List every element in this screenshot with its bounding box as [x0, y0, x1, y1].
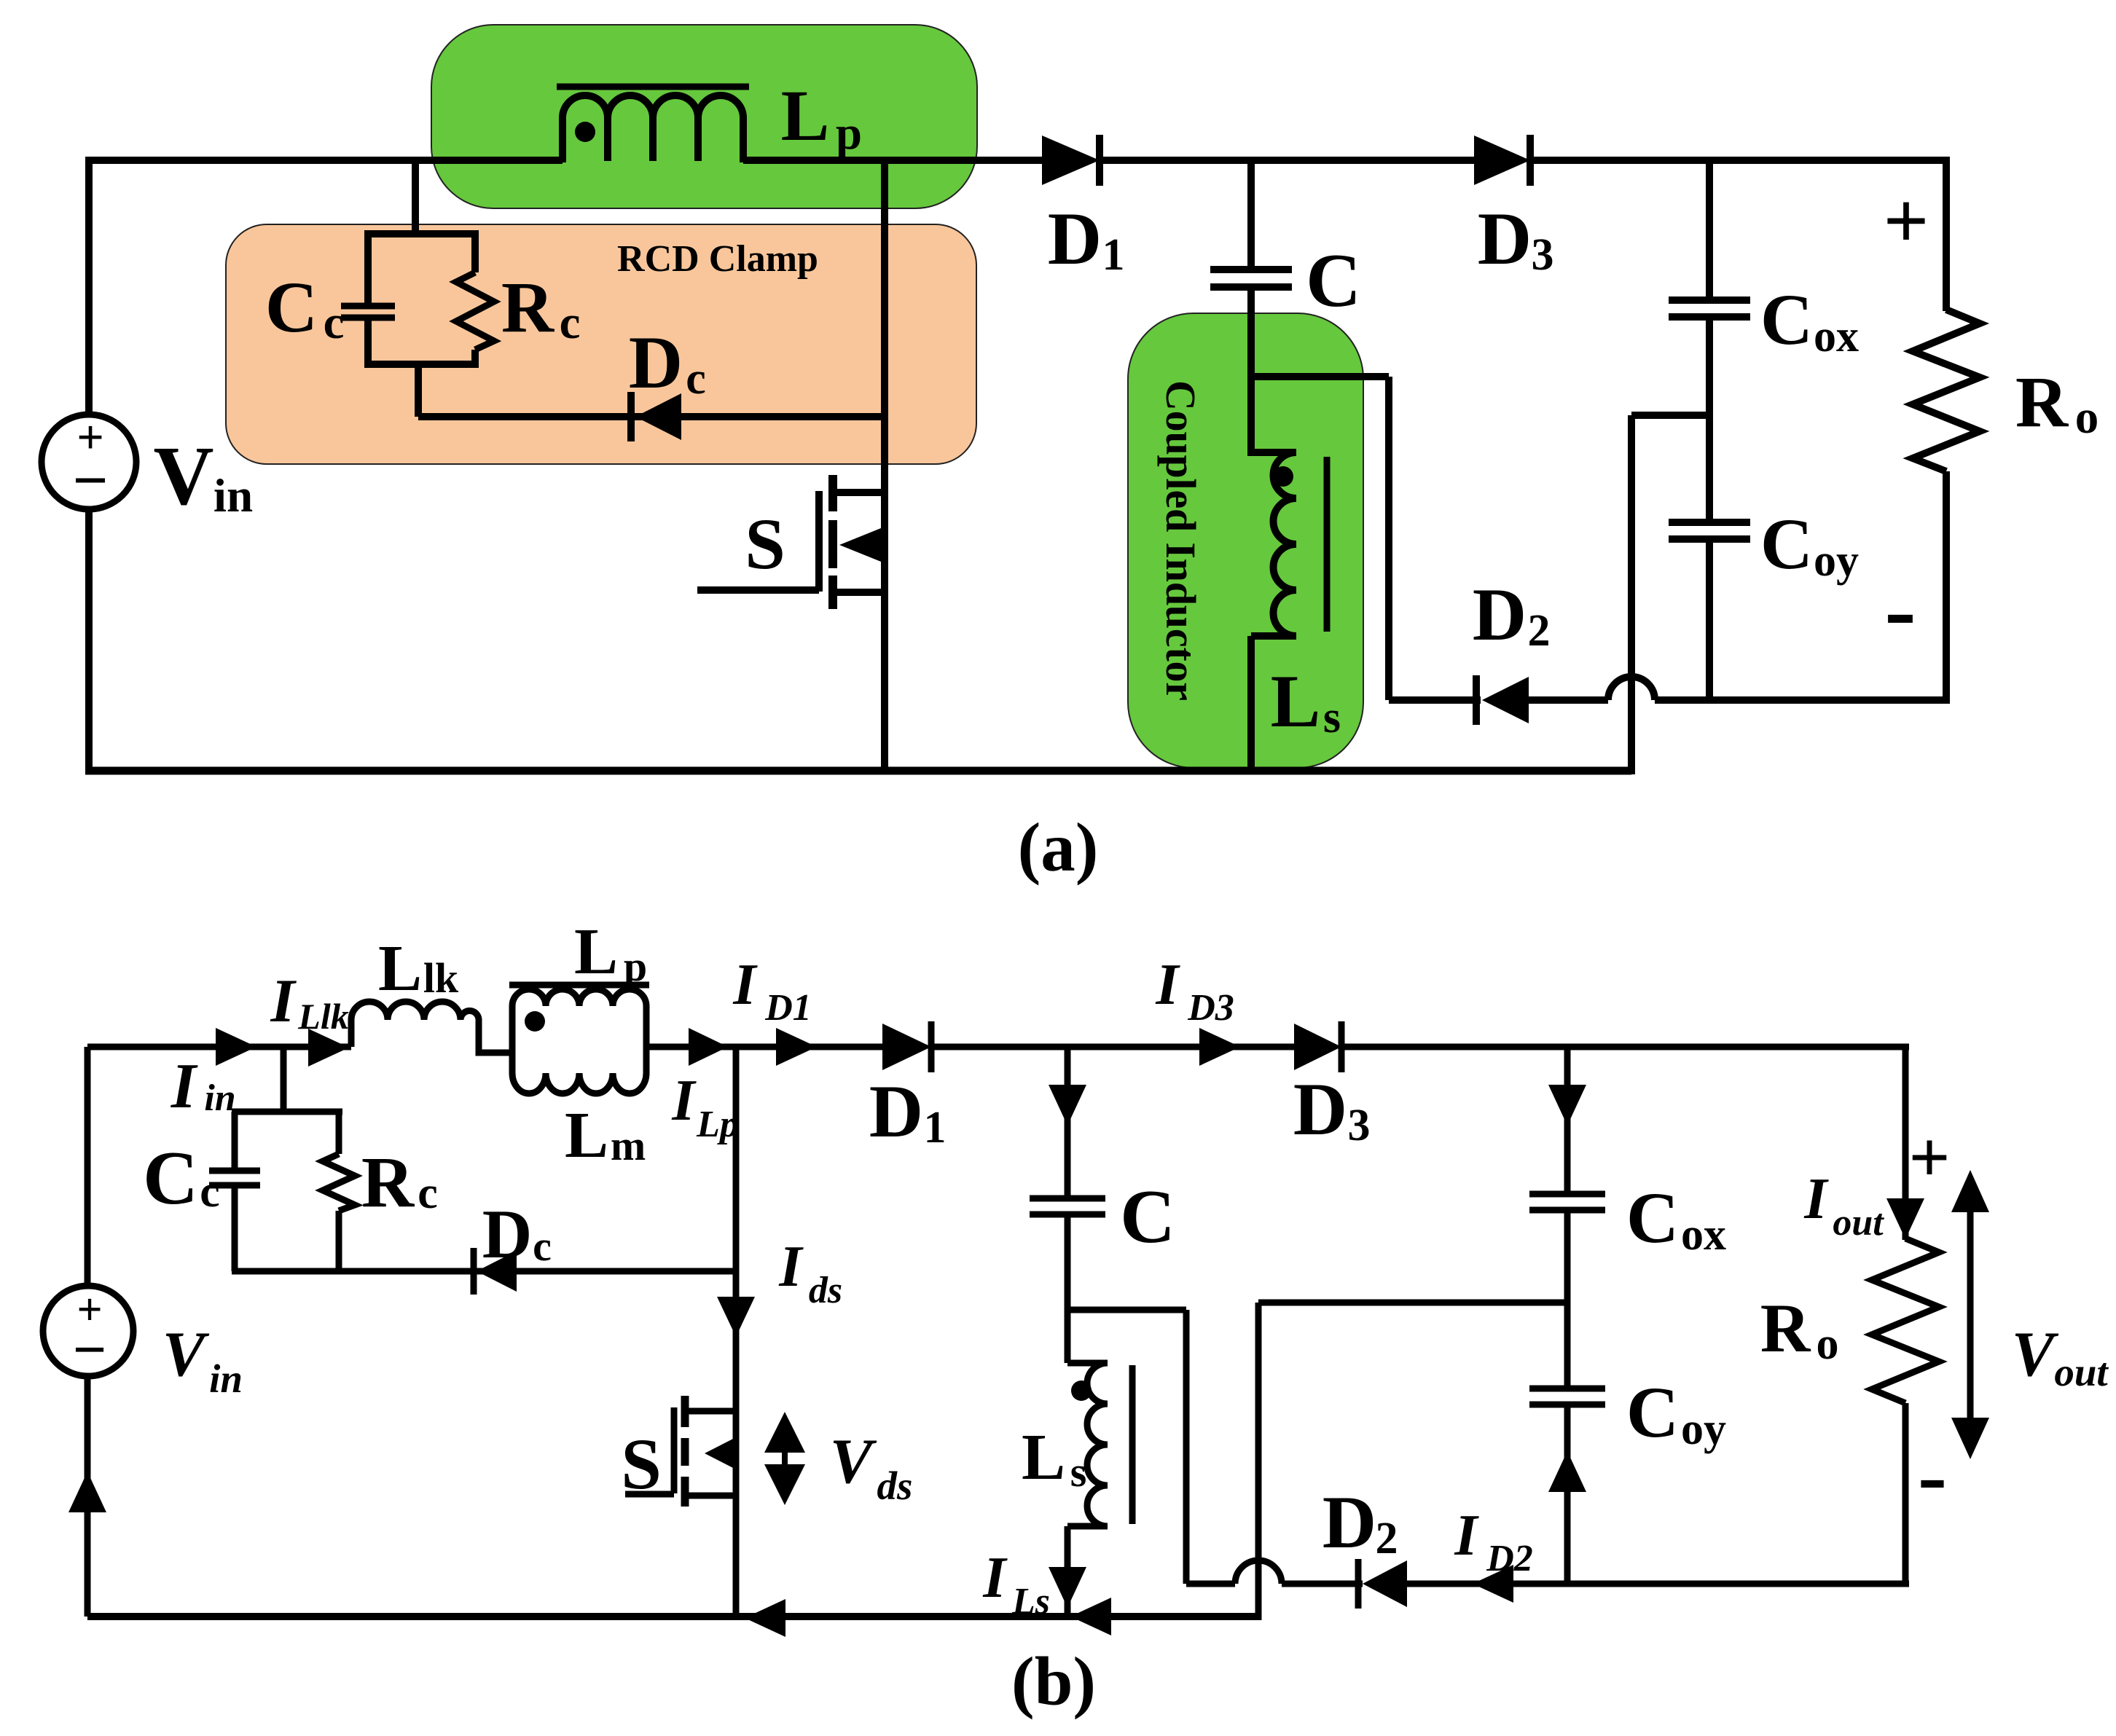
svg-text:I: I: [171, 1051, 198, 1122]
svg-text:c: c: [560, 296, 581, 349]
resistor Ro: [1913, 310, 1980, 471]
node C branch from rail: [1247, 160, 1255, 270]
wire switch drain vertical: [733, 1047, 740, 1617]
arrow Vout: [1967, 1206, 1974, 1421]
svg-text:C: C: [1760, 279, 1813, 360]
node clamp feed: [281, 1047, 287, 1112]
wire rail D3 to output corner: [1341, 1044, 1909, 1050]
wire hop over ground branch: [1235, 1560, 1282, 1584]
resistor Ro: [1872, 1238, 1939, 1403]
resistor Rc: [456, 272, 494, 350]
arrow Vds: [764, 1412, 805, 1453]
wire switch drain vertical: [881, 157, 888, 771]
svg-text:L: L: [378, 932, 422, 1005]
svg-text:ox: ox: [1681, 1210, 1726, 1260]
wire Cox branch: [1564, 1047, 1571, 1194]
node C branch: [1065, 1047, 1071, 1198]
wire clamp feed from rail: [412, 160, 419, 234]
svg-text:−: −: [73, 1316, 107, 1383]
source Vin circle: [42, 415, 136, 509]
svg-text:R: R: [361, 1142, 415, 1222]
current arrow ID1: [776, 1028, 817, 1066]
FIGURE A: [42, 25, 2099, 886]
current arrow ILp: [689, 1028, 728, 1066]
svg-text:D: D: [869, 1070, 923, 1153]
svg-text:Lp: Lp: [696, 1104, 739, 1145]
wire D2 to hop: [1529, 696, 1608, 704]
capacitor Cox: [1529, 1194, 1605, 1210]
current arrow up Coy branch: [1548, 1451, 1586, 1492]
wire Dc line: [339, 1268, 736, 1275]
svg-text:-: -: [1918, 1426, 1947, 1523]
dot Lp polarity: [575, 122, 595, 142]
svg-text:3: 3: [1532, 230, 1554, 280]
svg-text:out: out: [2054, 1350, 2109, 1394]
transformer core bar: [509, 982, 649, 989]
wire source Vin branch left: [85, 160, 93, 771]
current arrow ID3: [1199, 1028, 1240, 1066]
svg-text:Llk: Llk: [297, 996, 348, 1037]
svg-text:in: in: [213, 470, 253, 522]
svg-text:ox: ox: [1814, 312, 1859, 361]
svg-text:L: L: [781, 75, 830, 156]
svg-text:D: D: [1473, 573, 1527, 656]
wire clamp box: [232, 1112, 342, 1271]
capacitor Coy: [1669, 522, 1750, 539]
wire Coy to D2 line: [1564, 1405, 1571, 1584]
svg-text:c: c: [686, 354, 706, 404]
highlight box RCD clamp: [226, 224, 976, 464]
svg-text:V: V: [2012, 1319, 2059, 1390]
wire hop over ground branch: [1608, 677, 1655, 700]
svg-text:s: s: [1070, 1448, 1087, 1496]
svg-text:R: R: [2015, 361, 2069, 442]
svg-text:oy: oy: [1814, 536, 1859, 586]
svg-text:out: out: [1833, 1202, 1884, 1244]
wire rail D1 to D3: [931, 1044, 1296, 1050]
FIGURE B: [43, 916, 2109, 1720]
wire load right vertical bottom: [1943, 471, 1950, 704]
svg-text:I: I: [671, 1069, 697, 1133]
svg-text:C: C: [1120, 1174, 1175, 1259]
svg-text:I: I: [778, 1235, 804, 1299]
svg-text:D2: D2: [1486, 1538, 1533, 1579]
svg-text:V: V: [153, 430, 213, 522]
dot Ls polarity: [1071, 1380, 1092, 1401]
current arrow Iout: [1886, 1198, 1924, 1239]
wire D2 line left: [1186, 1581, 1235, 1587]
svg-text:2: 2: [1528, 606, 1551, 656]
wire transformer output: [646, 1044, 884, 1050]
wire C to Ls: [1065, 1214, 1071, 1363]
diode D1: [1042, 135, 1100, 185]
svg-text:c: c: [418, 1169, 438, 1218]
wire C to Ls junction: [1247, 287, 1255, 456]
inductor Ls core bar: [1324, 457, 1331, 632]
svg-text:S: S: [745, 503, 785, 584]
wire ground to midpoint vertical: [1258, 1303, 1567, 1620]
svg-text:ds: ds: [877, 1464, 913, 1508]
wire top rail left: [87, 1044, 351, 1050]
svg-text:D: D: [629, 321, 683, 404]
diode D1: [882, 1024, 931, 1070]
svg-text:p: p: [836, 107, 862, 160]
svg-text:D1: D1: [764, 987, 812, 1029]
svg-text:C: C: [1626, 1177, 1679, 1258]
transformer magnetizing Lm winding: [512, 1073, 646, 1093]
svg-text:s: s: [1323, 693, 1341, 742]
svg-text:C: C: [1306, 237, 1361, 323]
wire clamp box top: [364, 234, 479, 417]
wire Cox to Coy: [1564, 1210, 1571, 1389]
svg-text:C: C: [265, 267, 318, 347]
svg-text:c: c: [324, 296, 345, 349]
wire Coy to output bottom: [1706, 539, 1713, 700]
svg-text:c: c: [200, 1167, 220, 1217]
inductor Llk: [351, 1002, 512, 1053]
inductor Ls top stub: [1251, 449, 1296, 456]
wire top rail from D3 to output corner: [1530, 157, 1950, 164]
svg-text:(a): (a): [1018, 809, 1099, 886]
resistor Rc: [323, 1154, 355, 1211]
svg-text:C: C: [1760, 503, 1813, 584]
svg-text:I: I: [982, 1546, 1008, 1610]
inductor Lp winding: [563, 95, 743, 162]
svg-text:I: I: [1454, 1504, 1479, 1568]
capacitor Cc: [341, 306, 395, 318]
capacitor C: [1210, 270, 1292, 287]
current arrow return left: [745, 1599, 785, 1637]
svg-text:p: p: [624, 943, 647, 990]
wire Cox branch from rail: [1706, 160, 1713, 300]
transistor S mosfet: [625, 1407, 736, 1496]
transistor S mosfet: [697, 491, 885, 592]
wire bottom rail: [87, 1613, 1258, 1620]
capacitor C: [1030, 1198, 1105, 1214]
inductor Ls bottom stub: [1067, 1526, 1108, 1617]
svg-text:in: in: [204, 1077, 235, 1119]
svg-text:D: D: [1478, 197, 1532, 280]
current arrow ILlk: [308, 1029, 349, 1067]
svg-text:V: V: [162, 1319, 210, 1390]
diode D2: [1282, 1559, 1363, 1609]
svg-text:R: R: [501, 267, 555, 347]
highlight box coupled inductor primary Lp: [431, 25, 977, 208]
current arrow input return up: [68, 1472, 106, 1512]
svg-text:L: L: [1022, 1421, 1065, 1493]
svg-text:I: I: [270, 967, 297, 1035]
current arrow into C: [1049, 1085, 1086, 1126]
diode D3: [1474, 135, 1530, 185]
svg-text:+: +: [1909, 1117, 1951, 1198]
current arrow Iin: [216, 1028, 256, 1066]
svg-text:3: 3: [1348, 1101, 1371, 1150]
svg-text:+: +: [1884, 176, 1929, 265]
svg-text:o: o: [1817, 1319, 1839, 1369]
svg-text:oy: oy: [1681, 1405, 1726, 1454]
svg-text:lk: lk: [423, 954, 459, 1002]
svg-text:V: V: [830, 1426, 877, 1497]
svg-text:1: 1: [1102, 230, 1125, 280]
inductor Ls bottom stub: [1251, 636, 1296, 771]
diode Dc: [635, 393, 681, 440]
svg-text:I: I: [1155, 953, 1180, 1017]
svg-text:I: I: [732, 953, 758, 1017]
svg-text:D3: D3: [1187, 987, 1234, 1029]
diode D2: [1473, 675, 1480, 725]
capacitor Coy: [1529, 1389, 1605, 1405]
wire output right vertical top: [1903, 1047, 1909, 1240]
wire source Vin branch left: [85, 1047, 91, 1617]
wire top rail from Lp to D1: [743, 157, 1043, 164]
wire junction to D2 branch: [1251, 377, 1389, 700]
inductor Lp core bar: [557, 84, 749, 90]
svg-text:in: in: [209, 1356, 243, 1401]
wire output right vertical bottom: [1903, 1403, 1909, 1584]
transformer primary Lp winding: [512, 989, 646, 1073]
svg-text:S: S: [621, 1423, 662, 1504]
inductor Ls top stub: [1067, 1360, 1108, 1367]
svg-text:D: D: [482, 1195, 533, 1273]
source Vin circle: [43, 1286, 133, 1376]
svg-text:D: D: [1293, 1068, 1347, 1151]
svg-text:C: C: [143, 1135, 198, 1220]
wire junction to D2 branch: [1067, 1310, 1186, 1584]
wire D2 line from junction: [1389, 696, 1481, 704]
dot transformer polarity: [525, 1011, 545, 1032]
wire top rail from D1 to D3: [1100, 157, 1476, 164]
svg-text:I: I: [1803, 1167, 1829, 1231]
diode Dc: [477, 1251, 517, 1292]
svg-text:(b): (b): [1011, 1643, 1096, 1720]
wire Dc anode to clamp: [418, 413, 885, 420]
svg-text:−: −: [72, 445, 108, 515]
wire ground to Cox-Coy midpoint: [1631, 415, 1709, 774]
svg-text:-: -: [1884, 557, 1916, 662]
wire output bottom: [1655, 696, 1950, 704]
svg-text:D: D: [1048, 197, 1102, 280]
wire D2 to output bottom: [1407, 1581, 1909, 1587]
svg-text:o: o: [2075, 391, 2099, 444]
diode D3: [1294, 1024, 1341, 1070]
highlight box coupled inductor secondary Ls: [1128, 313, 1363, 768]
inductor Ls winding: [1087, 1363, 1108, 1526]
svg-text:R: R: [1760, 1289, 1811, 1367]
current arrow return from Ls: [1070, 1598, 1111, 1635]
current arrow ID2: [1473, 1565, 1513, 1603]
dot Ls polarity: [1273, 466, 1293, 487]
current arrow into Cox: [1548, 1085, 1586, 1126]
inductor Ls winding: [1274, 452, 1296, 636]
svg-text:c: c: [533, 1222, 552, 1270]
current arrow ILs: [1049, 1567, 1086, 1608]
svg-text:D: D: [1322, 1481, 1376, 1564]
inductor Ls core bar: [1129, 1365, 1136, 1524]
current arrow Ids: [717, 1297, 755, 1337]
wire Cox to Coy: [1706, 317, 1713, 522]
svg-text:L: L: [1271, 660, 1321, 743]
svg-text:ds: ds: [809, 1270, 842, 1311]
svg-text:C: C: [1626, 1372, 1679, 1453]
svg-text:1: 1: [924, 1103, 947, 1152]
capacitor Cox: [1669, 300, 1750, 317]
svg-text:Coupled Inductor: Coupled Inductor: [1157, 380, 1204, 701]
svg-text:L: L: [574, 916, 618, 988]
svg-text:m: m: [611, 1122, 646, 1169]
capacitor Cc: [209, 1171, 260, 1185]
wire load right vertical top: [1943, 160, 1950, 311]
svg-text:2: 2: [1376, 1514, 1398, 1563]
svg-text:L: L: [565, 1099, 608, 1171]
wire top rail left segment: [85, 157, 563, 164]
svg-text:RCD Clamp: RCD Clamp: [617, 238, 818, 280]
wire bottom rail: [85, 767, 1631, 775]
